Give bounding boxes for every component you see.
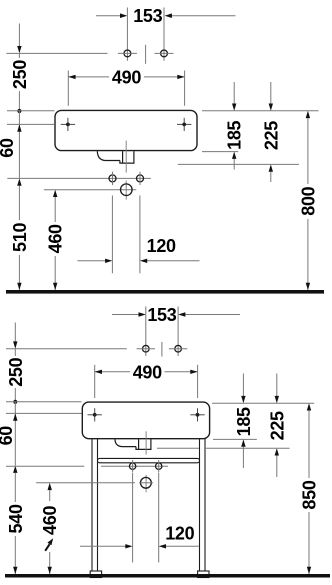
svg-text:510: 510 xyxy=(10,223,30,252)
svg-text:225: 225 xyxy=(261,121,281,150)
tap hole level line left (lower) xyxy=(6,412,82,414)
dimension 153 leader right xyxy=(172,15,236,17)
svg-text:153: 153 xyxy=(133,6,162,26)
extension line 490 left xyxy=(67,71,69,106)
dimension 60 text (lower) xyxy=(0,426,16,446)
dimension 60 segment xyxy=(18,111,20,178)
dimension 153 leader left (lower) xyxy=(112,314,140,316)
drain outlet rectangle xyxy=(120,151,134,163)
dimension 60 segment (lower) xyxy=(14,402,16,466)
centerline tick between holes xyxy=(145,45,147,64)
fixing bolt hole right (lower) xyxy=(156,463,162,469)
dimension 225 text xyxy=(261,121,281,150)
dimension 225 bottom arrow (lower) xyxy=(275,448,279,455)
dimension 250 text xyxy=(10,58,27,91)
dimension 490 line xyxy=(68,76,109,78)
svg-text:60: 60 xyxy=(0,138,17,158)
wall supply connection hole right xyxy=(161,50,168,57)
svg-text:60: 60 xyxy=(0,426,16,446)
floor line upper view xyxy=(6,290,324,294)
fixing bolt hole right xyxy=(137,175,144,182)
junction dot at basin rim xyxy=(17,109,21,113)
dimension 225 text (lower) xyxy=(267,411,287,440)
dimension 185 top arrow (lower) xyxy=(242,374,244,397)
basin rim line right segment xyxy=(202,110,319,112)
siphon cover arc under basin xyxy=(97,151,120,160)
dimension 60 text xyxy=(0,138,17,158)
tap hole level line left xyxy=(7,123,54,125)
drain level line (lower) xyxy=(36,482,135,484)
extension line right tap hole xyxy=(163,8,165,61)
washbasin body (lower) xyxy=(82,402,209,439)
reference line at supply height xyxy=(6,52,107,54)
dimension 850 text xyxy=(300,478,318,512)
dimension 120 arrows xyxy=(78,260,107,262)
extension lines tap holes (lower) xyxy=(145,307,147,357)
fixing bolt level line xyxy=(7,177,151,179)
dimension 225 top arrow xyxy=(270,82,272,104)
svg-text:120: 120 xyxy=(165,524,194,544)
console leg right xyxy=(199,439,201,571)
dimension chain 250/60/510 vertical line xyxy=(18,24,20,47)
junction dot at rim (lower) xyxy=(13,400,17,404)
extension line 490 right xyxy=(184,71,186,106)
crosshair left hole xyxy=(118,52,137,54)
dimension 250 text (lower) xyxy=(6,356,23,388)
siphon cover arc under basin (lower) xyxy=(115,439,136,446)
crosshair right hole (lower) xyxy=(169,348,187,350)
dimension 460 text (lower) xyxy=(41,501,59,552)
basin rim line left segment (lower) xyxy=(6,401,82,403)
dimension 153 leader left xyxy=(96,15,121,17)
dimension 185 bottom arrow xyxy=(232,152,236,159)
crosshair right hole xyxy=(155,52,174,54)
wall supply hole left (lower) xyxy=(143,345,150,352)
svg-text:540: 540 xyxy=(6,504,26,533)
svg-text:153: 153 xyxy=(147,305,176,325)
drain hole circle xyxy=(121,184,133,196)
basin rim line right segment (lower) xyxy=(212,402,314,404)
dimension 460 line (lower) xyxy=(48,483,52,490)
drain bottom reference line xyxy=(178,163,299,165)
height adjust arrow symbol xyxy=(45,544,49,551)
drain hole circle (lower) xyxy=(141,477,152,488)
svg-text:120: 120 xyxy=(147,236,176,256)
dimension 153 leader right (lower) xyxy=(185,314,240,316)
dimension 120 extension lines (lower) xyxy=(132,473,134,562)
reference line at supply height (lower) xyxy=(6,348,127,350)
dimension 510 text xyxy=(10,220,27,255)
drain centerline (lower) xyxy=(145,431,147,492)
dimension 185 text (lower) xyxy=(234,407,254,436)
svg-text:490: 490 xyxy=(133,362,162,382)
svg-text:185: 185 xyxy=(225,120,245,149)
dimension 120 arrows (lower) xyxy=(80,545,126,547)
svg-text:800: 800 xyxy=(298,186,318,215)
drain outlet rectangle (lower) xyxy=(136,439,151,449)
dimension 800 line xyxy=(306,111,310,118)
floor line lower view xyxy=(5,574,330,578)
basin bottom reference line (lower) xyxy=(213,438,257,440)
svg-text:185: 185 xyxy=(234,407,254,436)
dimension 225 top arrow (lower) xyxy=(276,374,278,397)
dimension 460 text xyxy=(46,222,64,256)
wall supply connection hole left xyxy=(124,50,131,57)
dimension chain 250/60/540 vertical (lower) xyxy=(14,323,16,342)
dimension 225 bottom arrow xyxy=(269,164,273,171)
dimension 185 bottom arrow (lower) xyxy=(241,439,245,446)
console crossbar xyxy=(98,458,200,462)
dimension 510 segment xyxy=(17,178,21,185)
basin bottom reference line xyxy=(202,151,238,153)
dimension 800 text xyxy=(299,184,317,219)
crosshair left hole (lower) xyxy=(137,348,155,350)
basin rim line left segment xyxy=(7,110,55,112)
drain level line xyxy=(44,189,136,191)
svg-text:225: 225 xyxy=(267,411,287,440)
svg-text:490: 490 xyxy=(112,67,141,87)
drain centerline xyxy=(125,141,127,200)
svg-text:460: 460 xyxy=(46,224,66,253)
tap hole mark left (lower) xyxy=(88,408,102,421)
dimension 460 line xyxy=(53,190,57,197)
centerline tick between holes (lower) xyxy=(161,342,163,357)
fixing bolt hole left (lower) xyxy=(129,463,135,469)
dimension 540 segment (lower) xyxy=(13,466,17,473)
svg-text:850: 850 xyxy=(300,480,320,509)
dimension 185 text xyxy=(225,120,245,149)
tap hole mark right xyxy=(177,118,191,131)
fixing bolt level line (lower) xyxy=(6,465,84,467)
svg-text:460: 460 xyxy=(40,506,60,535)
washbasin body xyxy=(55,110,197,150)
dimension 850 line xyxy=(307,403,311,410)
svg-text:250: 250 xyxy=(10,60,30,89)
console leg left xyxy=(91,439,93,571)
wall supply hole right (lower) xyxy=(175,345,182,352)
extension lines 490 (lower) xyxy=(94,365,96,398)
extension line left tap hole xyxy=(126,8,128,61)
drain bottom reference line (lower) xyxy=(157,447,290,449)
tap hole mark right (lower) xyxy=(190,408,204,421)
console foot right xyxy=(198,571,209,578)
svg-text:250: 250 xyxy=(6,357,26,386)
dimension 490 line (lower) xyxy=(95,371,130,373)
dimension 120 extension lines xyxy=(111,196,113,274)
tap hole mark left xyxy=(61,118,75,131)
dimension 540 text (lower) xyxy=(6,502,23,536)
console foot left xyxy=(90,571,101,578)
fixing bolt hole left xyxy=(109,175,116,182)
dimension 185 top arrow xyxy=(233,82,235,104)
